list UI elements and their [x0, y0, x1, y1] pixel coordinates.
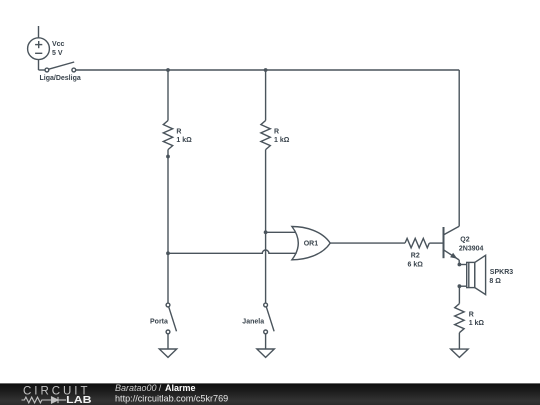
- label SPKR3 8 Ohm: [489, 269, 513, 285]
- resistor R3 (R 1k, bottom): [455, 304, 464, 333]
- wire from source to switch: [39, 69, 46, 71]
- wire right column upper: [265, 70, 267, 121]
- svg-text:2N3904: 2N3904: [459, 246, 484, 253]
- junction dot OR upper input: [264, 230, 268, 234]
- svg-text:Vcc: Vcc: [52, 41, 65, 48]
- wire R3 to ground: [458, 333, 460, 349]
- speaker SPKR3: [458, 255, 486, 294]
- wire Janela to ground: [265, 334, 267, 349]
- logo diode: [52, 397, 67, 403]
- switch SW1 Liga/Desliga: [45, 62, 76, 72]
- svg-text:5 V: 5 V: [52, 50, 63, 57]
- svg-text:Baratao00: Baratao00: [115, 383, 157, 393]
- svg-text:http://circuitlab.com/c5kr769: http://circuitlab.com/c5kr769: [115, 394, 228, 404]
- switch Janela: [264, 303, 274, 334]
- wire right column lower: [265, 150, 267, 304]
- or-gate OR1: [292, 227, 330, 260]
- wire left column upper: [167, 70, 169, 121]
- svg-text:8 Ω: 8 Ω: [489, 278, 501, 285]
- wire top rail: [76, 69, 460, 71]
- label R 1 kOhm (left): [176, 129, 192, 145]
- label R 1 kOhm (middle): [274, 129, 290, 145]
- svg-text:Liga/Desliga: Liga/Desliga: [40, 75, 81, 82]
- ground (Janela): [257, 349, 274, 357]
- svg-text:Porta: Porta: [150, 318, 168, 325]
- resistor R2col (R 1k, middle): [261, 121, 270, 150]
- wire left column lower: [167, 150, 169, 304]
- svg-text:6 kΩ: 6 kΩ: [408, 261, 424, 268]
- svg-text:Janela: Janela: [242, 318, 264, 325]
- svg-text:1 kΩ: 1 kΩ: [176, 137, 192, 144]
- junction node B: [264, 68, 268, 72]
- logo resistor zigzag: [22, 397, 52, 403]
- wire speaker to R3: [458, 286, 460, 303]
- resistor R1 (R 1k, left): [163, 121, 172, 150]
- switch Porta: [166, 303, 176, 334]
- wire OR upper input: [266, 231, 296, 233]
- svg-text:R: R: [176, 129, 181, 136]
- wire OR output: [330, 242, 405, 244]
- svg-text:1 kΩ: 1 kΩ: [274, 137, 290, 144]
- svg-text:R: R: [274, 129, 279, 136]
- svg-text:R: R: [469, 312, 474, 319]
- label R 1 kOhm (bottom): [469, 312, 485, 328]
- svg-text:LAB: LAB: [66, 395, 91, 405]
- svg-text:R2: R2: [411, 253, 420, 260]
- svg-text:OR1: OR1: [304, 241, 319, 248]
- transistor Q2 2N3904: [444, 226, 460, 264]
- label Q2 2N3904: [459, 237, 484, 253]
- wire Porta to ground: [167, 334, 169, 349]
- resistor R2 (6k): [405, 238, 429, 247]
- junction dot OR lower input: [166, 251, 170, 255]
- label Vcc 5 V: [52, 41, 65, 57]
- svg-text:SPKR3: SPKR3: [490, 269, 513, 276]
- svg-text:1 kΩ: 1 kΩ: [469, 320, 485, 327]
- voltage source V1 Vcc: [28, 26, 50, 70]
- wire R2 to base: [429, 242, 443, 244]
- label R2 6 kOhm: [408, 253, 424, 269]
- wire collector lead: [458, 70, 460, 226]
- svg-text:Q2: Q2: [460, 237, 469, 244]
- ground (Porta): [159, 349, 176, 357]
- ground (right): [451, 349, 468, 357]
- junction node A: [166, 68, 170, 72]
- svg-text:Alarme: Alarme: [165, 383, 196, 393]
- wire OR lower input with hop: [168, 250, 296, 254]
- junction dot below R1: [166, 155, 170, 159]
